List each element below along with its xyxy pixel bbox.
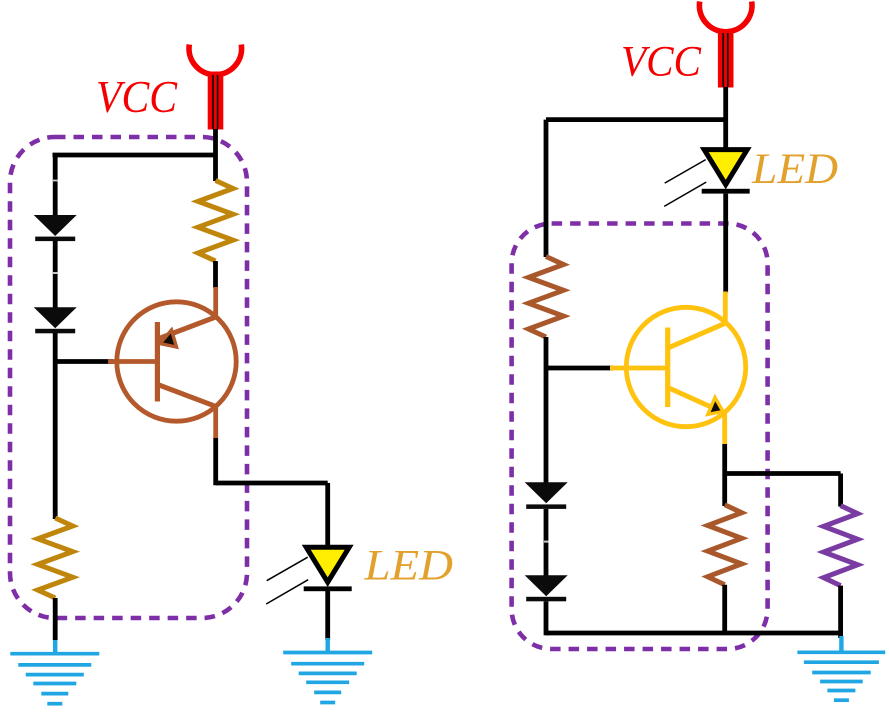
- transistor Q2 (NPN, yellow): [610, 292, 746, 445]
- power symbol VCC (right): [699, 2, 752, 88]
- wire left branch down to R3 (right): [544, 120, 549, 257]
- ground (left, below R2): [10, 640, 99, 704]
- wire top horizontal (right): [546, 117, 726, 122]
- diode D3: [525, 482, 568, 509]
- wire D2 to resistor R2 (with base tap node): [53, 333, 58, 519]
- wire Q2 emitter down: [722, 444, 727, 506]
- resistor R5: [824, 506, 858, 586]
- diode D1: [34, 215, 77, 241]
- transistor Q1 (PNP, brown): [108, 287, 236, 438]
- svg-text:LED: LED: [751, 146, 838, 193]
- wire R3 to diode D3 (with base tap node): [544, 337, 549, 484]
- wire emitter node horizontal to R5 branch: [725, 471, 841, 476]
- wire between D1 and D2: [53, 241, 58, 308]
- wire base of Q1 (black segment): [55, 359, 113, 364]
- subcircuit boundary box (left): [10, 137, 247, 618]
- wire base of Q2 (black segment): [546, 366, 613, 371]
- wire R5 to bottom rail and ground: [838, 586, 843, 638]
- svg-text:LED: LED: [363, 543, 453, 590]
- wire Q1 emitter down: [213, 438, 218, 485]
- wire emitter horizontal to LED branch: [216, 481, 328, 486]
- wire down to LED D5 anode: [325, 483, 330, 548]
- wire left vertical to diode D1: [53, 155, 58, 216]
- wire VCC stem to top node (left): [213, 129, 218, 181]
- resistor R4: [708, 505, 742, 585]
- wire between D3 and D4: [544, 509, 549, 576]
- pin joint notch on left rail: [53, 180, 58, 182]
- wire R4 to bottom rail: [722, 585, 727, 634]
- power symbol VCC (left): [189, 45, 242, 130]
- svg-text:VCC: VCC: [96, 71, 178, 122]
- wire R2 to ground: [53, 598, 58, 640]
- wire bottom rail (right circuit): [546, 631, 843, 636]
- svg-text:VCC: VCC: [621, 37, 702, 85]
- wire VCC stem down to LED (right): [723, 87, 728, 150]
- ground (right circuit): [797, 636, 885, 700]
- wire R1 to Q1 collector pin: [213, 261, 218, 288]
- resistor R3: [529, 257, 564, 338]
- wire D4 to bottom rail: [544, 601, 549, 635]
- LED D6 (right): [664, 150, 750, 207]
- resistor R1: [198, 181, 233, 262]
- ground (below left LED): [283, 638, 372, 703]
- wire top horizontal (left): [53, 153, 216, 158]
- diode D4: [525, 575, 568, 601]
- subcircuit boundary box (right): [512, 224, 768, 650]
- LED D5 (left): [266, 547, 352, 604]
- resistor R2: [38, 518, 73, 598]
- diode D2: [34, 307, 77, 333]
- wire LED cathode to ground (left LED): [325, 591, 330, 640]
- wire down to R5: [838, 474, 843, 507]
- wire LED cathode to Q2 collector: [723, 194, 728, 293]
